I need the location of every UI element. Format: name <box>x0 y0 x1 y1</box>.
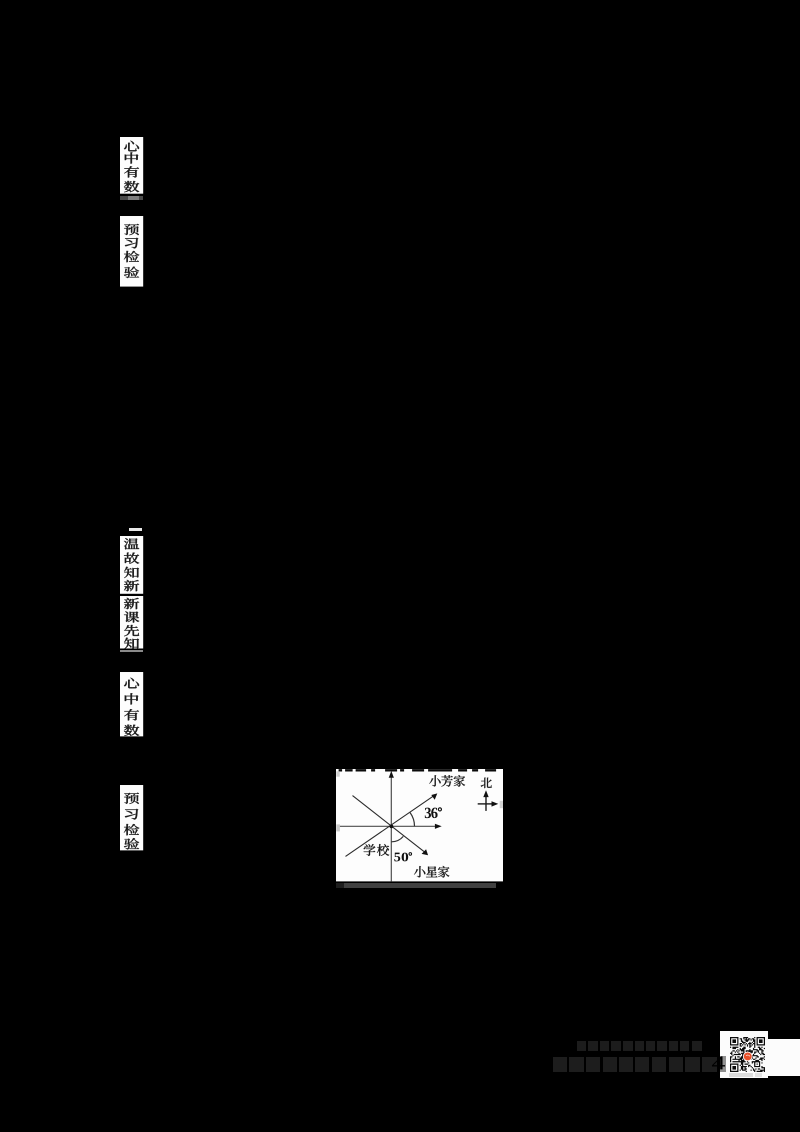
angle label 50 deg <box>394 853 400 862</box>
faint dark caption line 2 (large) <box>553 1057 567 1073</box>
50 degree arc <box>391 836 403 841</box>
label box xin-zhong-you-shu 1 <box>120 137 145 196</box>
label box yu-xi-jian-yan 1 <box>120 216 145 289</box>
diagram white panel <box>336 769 503 881</box>
page number 4 <box>705 1052 729 1076</box>
vertical axis (north axis) with up arrow <box>390 777 392 881</box>
label: xiaoxing jia (bottom) <box>414 866 425 877</box>
gray underline bar below box1 <box>120 196 143 200</box>
label: xiaofang jia (top) <box>429 775 440 786</box>
dark dashes along panel top edge <box>338 769 495 771</box>
gray line below box4 <box>120 650 143 652</box>
dark shadow bar below diagram panel <box>336 883 496 887</box>
label: xuexiao (school) <box>364 844 376 856</box>
small white tick above box3 <box>129 528 142 531</box>
white patch right of QR card <box>768 1039 800 1077</box>
QR code <box>730 1037 765 1072</box>
origin junction dot <box>389 824 393 828</box>
label box xin-zhong-you-shu 2 <box>120 672 145 738</box>
36 degree arc <box>410 812 414 826</box>
ray to xiaoxing house (SE) with arrow, extended NW <box>352 795 425 852</box>
ray to xiaofang house (36 deg NE) with arrow, extended SW <box>345 795 434 856</box>
QR center logo (orange) <box>742 1051 752 1061</box>
gray specks on panel edges <box>336 771 339 776</box>
label box yu-xi-jian-yan 2 <box>120 785 145 852</box>
label: bei (north) <box>481 777 492 787</box>
label box xin-ke-xian-zhi <box>120 596 145 651</box>
horizontal axis (east axis) with right arrow <box>340 825 436 827</box>
faint caption under QR <box>729 1073 753 1076</box>
gray highlight box behind page number 4 <box>720 1056 726 1072</box>
north compass cross arrows <box>485 795 487 810</box>
faint dark caption line 1 (small) <box>577 1041 586 1052</box>
angle label 36 deg <box>425 808 431 818</box>
QR white card <box>720 1031 768 1078</box>
label box wen-gu-zhi-xin <box>120 536 145 596</box>
